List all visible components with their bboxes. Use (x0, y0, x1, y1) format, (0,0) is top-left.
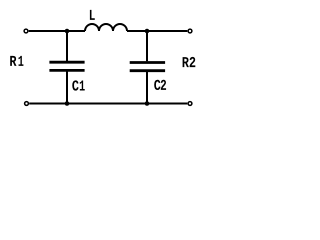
wire C1 upper stub (66, 31, 68, 61)
label R2 (183, 57, 196, 67)
node junction bottom C1 (65, 101, 70, 106)
label L (90, 10, 95, 20)
terminal bottom-left (25, 102, 29, 106)
wire C1 lower stub (66, 71, 68, 103)
node junction top C2 (145, 29, 150, 34)
node junction bottom C2 (145, 101, 150, 106)
wire top rail left segment (29, 30, 85, 32)
label R1 (10, 56, 23, 66)
wire C2 upper stub (146, 31, 148, 61)
inductor L (85, 24, 127, 31)
capacitor C2 (130, 63, 165, 71)
terminal top-right (188, 29, 192, 33)
wire bottom rail (29, 103, 187, 105)
terminal top-left (24, 29, 28, 33)
wire C2 lower stub (146, 72, 148, 104)
label C2 (154, 80, 166, 90)
wire top rail right segment (127, 30, 187, 32)
terminal bottom-right (188, 102, 192, 106)
label C1 (72, 80, 84, 90)
node junction top C1 (65, 29, 70, 34)
capacitor C1 (49, 62, 84, 70)
